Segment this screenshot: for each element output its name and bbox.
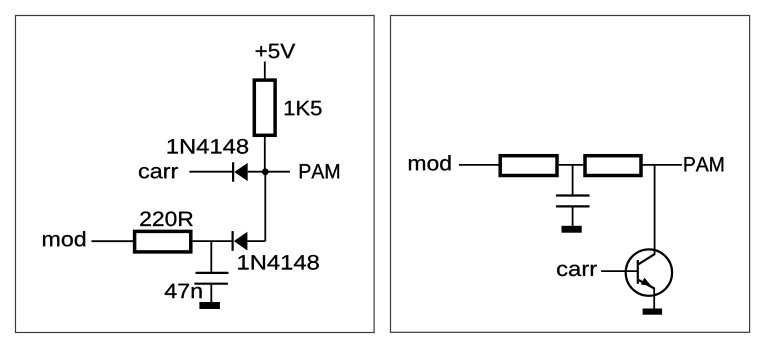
mod input label xyxy=(43,231,85,246)
wire Q1 emitter to ground xyxy=(653,288,655,309)
transistor Q1 collector diagonal xyxy=(638,254,654,264)
wire R1 to node PAM xyxy=(264,137,266,172)
wire D2 to vertical riser xyxy=(247,240,265,242)
ground symbol below C2 xyxy=(562,226,582,233)
transistor Q1 circle xyxy=(626,249,672,295)
wire mod to R3 xyxy=(459,164,500,166)
wire PAM node down to Q1 collector xyxy=(654,165,656,255)
resistor R2 body xyxy=(135,231,191,252)
ground symbol below C1 xyxy=(199,302,220,309)
resistor R4 body xyxy=(585,156,641,176)
carr input label (right) xyxy=(557,265,597,276)
power +5V label xyxy=(256,44,296,59)
wire junction down to C2 xyxy=(572,165,574,195)
transistor Q1 emitter arrow xyxy=(641,278,651,286)
wire C2 to ground xyxy=(572,208,574,226)
resistor R1 body xyxy=(254,80,275,135)
diode D1 triangle xyxy=(234,163,247,181)
label 1N4148 for D2 xyxy=(238,255,318,270)
mod input label (right) xyxy=(409,155,451,170)
wire mod to R2 xyxy=(92,240,134,242)
wire carr to Q1 base xyxy=(601,270,638,272)
wire node PAM down to D2 xyxy=(264,172,266,241)
diode D2 cathode bar xyxy=(232,231,234,251)
node PAM junction dot xyxy=(262,168,269,175)
left panel frame xyxy=(16,16,375,333)
carr input label xyxy=(139,167,178,178)
diode D2 triangle xyxy=(234,232,248,251)
wire carr to D1 xyxy=(189,171,233,173)
capacitor C1 value 47n xyxy=(165,284,202,298)
resistor R3 body xyxy=(500,156,557,176)
label 1N4148 for D1 xyxy=(168,139,249,154)
wire +5V to R1 xyxy=(264,62,266,79)
wire R2 to D2 and C1 junction xyxy=(193,240,233,242)
ground symbol below Q1 xyxy=(643,309,663,315)
resistor R1 value 1K5 xyxy=(285,101,322,116)
wire R4 to PAM label xyxy=(643,164,682,166)
resistor R2 value 220R xyxy=(140,212,192,227)
capacitor C2 bottom plate xyxy=(556,205,590,207)
capacitor C1 top plate xyxy=(196,272,229,274)
wire junction down to C1 xyxy=(210,241,212,272)
node PAM label (right) xyxy=(685,157,724,171)
diode D1 cathode bar xyxy=(232,162,234,181)
transistor Q1 base bar xyxy=(637,260,639,284)
wire C1 to ground xyxy=(210,285,212,302)
wire D1 to node PAM xyxy=(248,171,266,173)
capacitor C2 top plate xyxy=(556,194,590,196)
right panel frame xyxy=(391,16,750,333)
node PAM label xyxy=(300,164,339,178)
capacitor C1 bottom plate xyxy=(195,283,228,285)
transistor Q1 emitter diagonal xyxy=(638,280,654,289)
wire R3 to R4 with junction xyxy=(559,164,583,166)
wire node PAM to label xyxy=(265,171,290,173)
